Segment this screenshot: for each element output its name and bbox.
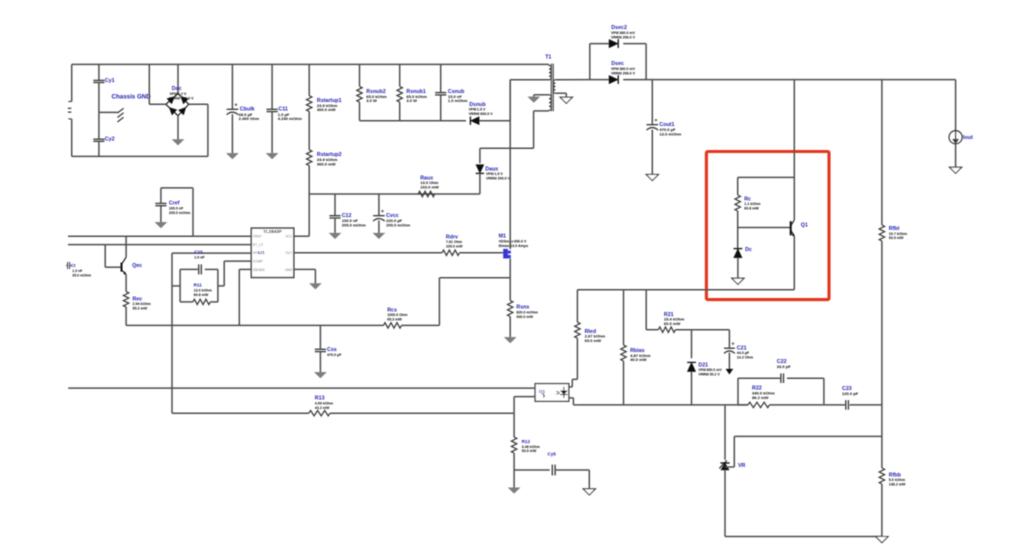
wire: R13 to opto junction [330, 412, 514, 414]
ground (Cref) [155, 222, 166, 227]
ground (C11) [267, 153, 278, 158]
svg-text:T1: T1 [545, 55, 551, 61]
label Rsnub1 values [406, 94, 427, 103]
wire: C23 to Rfbt column [850, 404, 882, 406]
capacitor C12 [329, 194, 340, 233]
label Rbias values [630, 353, 651, 362]
svg-text:IDmax 13.0 Amps: IDmax 13.0 Amps [499, 244, 528, 248]
diode D21 [687, 362, 696, 371]
resistor R11 [193, 299, 210, 304]
label Ct [71, 263, 76, 268]
wire: T1 aux bottom to Daux [480, 110, 549, 163]
ground (bridge) [172, 140, 183, 145]
svg-text:1.0 nF: 1.0 nF [194, 256, 205, 260]
transistor Qec [122, 257, 127, 275]
label Dc [745, 247, 752, 253]
wire: OUT pin to Rdrv [294, 252, 442, 254]
red highlight rectangle [706, 152, 829, 300]
label C21 values [737, 351, 753, 359]
label R13 values [315, 401, 333, 409]
resistor Rbias [621, 290, 626, 405]
label Daux [485, 166, 498, 172]
svg-text:VRRM 600.0 V: VRRM 600.0 V [170, 96, 195, 100]
label D21 values [698, 368, 722, 376]
svg-text:65.0 mW: 65.0 mW [585, 338, 602, 343]
label C23 [842, 386, 852, 392]
pin label RT_CT [253, 243, 264, 247]
wire: Iout to ground [955, 144, 957, 167]
svg-text:14.2 Ohm: 14.2 Ohm [737, 356, 753, 360]
svg-text:Dc: Dc [745, 247, 752, 253]
resistor Rled [575, 290, 580, 380]
wire: VREF bus [68, 235, 251, 237]
label D21 [698, 362, 708, 368]
wire: Rfbt to junctions [881, 241, 883, 468]
svg-text:3.0 W: 3.0 W [366, 98, 377, 103]
svg-text:GND: GND [285, 268, 293, 272]
pin label ISENSE [253, 268, 266, 272]
wire: R11 box left connector [172, 285, 180, 287]
svg-text:VRRM 206.0 V: VRRM 206.0 V [611, 71, 636, 75]
wire: T1 secondary bottom stub [555, 93, 566, 97]
label C22 value [777, 364, 791, 369]
label Rsns values [516, 310, 537, 318]
resistor Rc [735, 177, 740, 227]
transformer T1 primary winding [549, 66, 551, 80]
svg-text:Cy1: Cy1 [105, 78, 115, 84]
svg-text:205.0 mOhm: 205.0 mOhm [169, 211, 190, 215]
svg-text:103.0 mW: 103.0 mW [420, 185, 439, 190]
svg-text:Qec: Qec [132, 263, 142, 269]
wire: D21 to rail [691, 372, 693, 405]
capacitor Ct [66, 262, 71, 269]
resistor Rsns [508, 301, 513, 317]
label Rfbb [889, 472, 902, 478]
label C21 [737, 345, 747, 351]
label VR [738, 463, 746, 469]
wire: rail to C23 [824, 404, 845, 406]
wire: R12 to Cy5 node [513, 453, 515, 470]
svg-text:VRRM 50.2 V: VRRM 50.2 V [698, 373, 720, 377]
label Dsec [611, 61, 624, 67]
svg-text:Q1: Q1 [801, 222, 808, 228]
wire: R21 to C21 column [692, 329, 730, 331]
svg-text:33.0 pF: 33.0 pF [777, 364, 791, 369]
ground (Cbulk) [227, 153, 238, 158]
wire: snubber rail left [360, 120, 467, 122]
wire: T1 aux top stub [534, 95, 549, 97]
svg-text:RT_CT: RT_CT [253, 243, 264, 247]
svg-text:105.0 mW: 105.0 mW [446, 245, 463, 249]
transformer T1 secondary winding [553, 80, 555, 93]
wire: Rsns to ground [509, 317, 511, 338]
label C12 [342, 213, 352, 219]
capacitor Cout1 [647, 80, 659, 175]
pin label GND [285, 268, 293, 272]
label Rsns [516, 305, 529, 311]
svg-text:VR: VR [738, 463, 746, 469]
svg-text:VCC: VCC [285, 235, 293, 239]
wire: ISENSE pin run [239, 269, 251, 325]
label Cvcc [386, 213, 399, 219]
label Cbulk [240, 107, 255, 113]
label Rstartup2 [317, 152, 342, 158]
label Rstartup1 [317, 98, 342, 104]
label C10 [194, 249, 203, 254]
diode Dsec [609, 75, 618, 84]
resistor Rfbb [879, 468, 884, 484]
svg-text:Chassis GND: Chassis GND [112, 94, 152, 101]
ground arrow (secondary return) [560, 97, 572, 103]
svg-text:40.0 mW: 40.0 mW [630, 357, 647, 362]
svg-text:43.2 mW: 43.2 mW [315, 406, 330, 410]
label R11 [194, 283, 203, 288]
wire: junction up to opto emitter pin [514, 397, 535, 414]
capacitor Cbulk [227, 64, 239, 153]
wire: T1 secondary top to output rail [555, 79, 589, 81]
wire: RT_CT bus [68, 244, 251, 246]
wire: Rfbb to bottom rail [881, 484, 883, 537]
wire: D21 stub [691, 330, 693, 359]
wire: output rail [590, 79, 956, 81]
label R13 [315, 396, 325, 402]
capacitor Cvcc [373, 194, 385, 233]
wire: Q1 emitter down [793, 236, 795, 290]
transformer T1 core [551, 64, 553, 112]
capacitor Cref [155, 188, 193, 236]
transistor Q1 [791, 220, 795, 237]
wire: Qec base tap from RT_CT bus [105, 245, 121, 268]
label Raux values [420, 180, 439, 189]
wire: VR ref tap [725, 436, 734, 467]
ground arrow (Cy5) [583, 489, 595, 495]
wire: R21 branch drop [645, 290, 647, 330]
wire: T1 primary top from rail [548, 64, 550, 65]
label Cy5 [547, 452, 556, 457]
ground arrow (Iout) [949, 167, 961, 173]
label Cref values [169, 206, 190, 214]
svg-text:930.0 mW: 930.0 mW [516, 315, 533, 319]
svg-text:VREF: VREF [253, 235, 262, 239]
capacitor Cy1 [93, 64, 104, 112]
wire: Cy5 left [514, 469, 550, 471]
label Rfbt values [889, 232, 907, 240]
resistor R12 [511, 437, 516, 453]
svg-text:TL2843P: TL2843P [263, 229, 282, 234]
capacitor C23 [846, 400, 849, 410]
svg-text:4.240 mOhm: 4.240 mOhm [278, 116, 302, 121]
wire: top inner wire (Rc to collector) [738, 176, 795, 178]
capacitor Cy2 [93, 112, 104, 156]
optocoupler O1 LED [556, 387, 567, 398]
svg-text:COMP: COMP [253, 259, 264, 263]
label Csnub [448, 89, 465, 95]
label C23 value [842, 391, 859, 396]
label Rled values [585, 334, 606, 343]
svg-text:470.0 pF: 470.0 pF [327, 353, 342, 357]
capacitor C21 [724, 330, 735, 369]
label R22 [752, 386, 762, 392]
wire: feedback bottom rail [577, 404, 748, 406]
ground arrow (aux return) [528, 97, 539, 102]
ground arrow (bottom right) [876, 537, 888, 543]
label Cbulk values [239, 112, 260, 121]
voltage source Vac (left edge, collapsed symbol) [68, 64, 72, 156]
svg-text:360.0 mW: 360.0 mW [317, 161, 336, 166]
label Cout1 [659, 122, 674, 128]
svg-text:2.400 Ohm: 2.400 Ohm [239, 116, 260, 121]
wire: rail to Iout [955, 80, 957, 131]
resistor Raux [418, 191, 435, 196]
resistor Rsnub2 [357, 64, 362, 120]
capacitor C11 [267, 64, 278, 153]
resistor R13 [309, 411, 330, 416]
label Dsec values [611, 67, 636, 75]
label Dsec2 [611, 25, 627, 31]
ground (Rsns) [505, 337, 516, 342]
label Dac [172, 86, 182, 92]
label Rcs [387, 307, 397, 313]
label Rled [585, 329, 596, 335]
capacitor Csnub [435, 64, 446, 120]
diode Daux [476, 165, 484, 174]
wire: Q1 collector drop from rail [793, 80, 795, 220]
ground arrow (Cout1) [646, 174, 658, 180]
svg-text:U1: U1 [259, 250, 265, 256]
label Cref [169, 201, 180, 207]
wire: Qec collector from VREF bus [125, 236, 127, 257]
wire: bridge right to bottom rail [189, 104, 208, 156]
wire: rail drop to bridge top [177, 64, 179, 93]
svg-text:VRRM 600.0 V: VRRM 600.0 V [469, 112, 494, 116]
label Css [327, 347, 337, 353]
svg-text:60.8 mW: 60.8 mW [744, 207, 759, 211]
svg-text:120.0 pF: 120.0 pF [842, 391, 859, 396]
wire: Rdrv to gate [460, 252, 504, 254]
svg-text:Cy5: Cy5 [547, 452, 556, 457]
wire: T1 primary bottom to drain column [510, 80, 549, 121]
label Dac values [170, 92, 195, 100]
svg-text:205.0 mOhm: 205.0 mOhm [342, 222, 366, 227]
label Rbias [630, 348, 644, 354]
transformer T1 aux winding [549, 95, 551, 110]
label T1 [545, 55, 551, 61]
ground (Css) [315, 372, 326, 377]
wire: junction down to R12 [513, 413, 515, 437]
wire: snubber rail right [479, 120, 510, 122]
resistor Rstartup2 [307, 111, 312, 165]
wire: VFB bottom bus [172, 412, 309, 414]
svg-text:138.2 mW: 138.2 mW [889, 483, 906, 487]
label Rsnub1 [406, 89, 425, 95]
wire: Dc top stub [737, 228, 739, 249]
svg-text:OUT: OUT [285, 251, 292, 255]
label Raux [420, 175, 433, 181]
wire: Dc to ground arrow [737, 258, 739, 278]
svg-text:Css: Css [327, 347, 337, 353]
wire: M1 source to Rsns [509, 259, 511, 301]
label Rc values [744, 202, 760, 210]
node: C21 termination arrow [726, 369, 733, 374]
chassis ground (earth symbol) [117, 108, 123, 122]
svg-text:VRRM 206.0 V: VRRM 206.0 V [611, 35, 636, 39]
wire: Rled to opto anode jog [569, 379, 578, 387]
label Csnub values [448, 94, 468, 103]
label Rfbt [889, 226, 900, 232]
svg-text:R12: R12 [522, 439, 531, 444]
label C11 values [278, 112, 302, 121]
label R21 values [664, 317, 685, 326]
label Iout [963, 135, 973, 141]
diode Dsec2 [609, 39, 618, 48]
wire: bridge bottom to ground [177, 116, 179, 140]
wire: AC input top rail [72, 63, 549, 65]
wire: opto collector bus [68, 387, 535, 389]
label Rfbb values [889, 478, 906, 486]
svg-text:360.0 mW: 360.0 mW [317, 107, 336, 112]
label M1 [499, 233, 506, 239]
pin label VFB [253, 251, 260, 255]
wire: VR ref rail [734, 435, 882, 437]
wire: base wire [738, 227, 791, 229]
label R11 values [194, 288, 212, 296]
label Daux values [486, 172, 511, 180]
pin label OUT [285, 251, 292, 255]
svg-text:93.9 mW: 93.9 mW [522, 449, 537, 453]
wire: M1 drain column [509, 80, 511, 249]
capacitor Cy5 [552, 465, 555, 476]
MOSFET M1 [503, 249, 511, 259]
label Rsnub2 values [366, 94, 387, 103]
label C10 value [194, 256, 205, 260]
label Rec [133, 296, 143, 302]
svg-text:60.0 mW: 60.0 mW [664, 321, 681, 326]
label Chassis GND [112, 94, 152, 101]
label R21 [664, 312, 674, 318]
label R12 values [522, 445, 540, 453]
capacitor C10 [199, 264, 202, 274]
diode Dsnub [470, 117, 479, 125]
label TL2843P [263, 229, 282, 234]
label M1 values [499, 239, 528, 247]
svg-text:R11: R11 [194, 283, 203, 288]
wire: VR to bottom rail [724, 470, 726, 537]
wire: Daux to VCC rail [479, 173, 481, 194]
ground arrow (Dc) [732, 278, 744, 284]
label Rec values [133, 302, 151, 310]
resistor Rsnub1 [397, 64, 402, 120]
label Qec [132, 263, 142, 269]
bridge rectifier Dac [166, 94, 189, 116]
current source Iout [949, 131, 962, 144]
svg-text:VRRM 200.0 V: VRRM 200.0 V [486, 177, 511, 181]
resistor Rstartup1 [307, 64, 312, 111]
label U1 [259, 250, 265, 256]
wire: secondary bottom rail [725, 536, 882, 538]
diode Dc [734, 249, 743, 258]
label Rstartup2 values [317, 157, 338, 166]
IC U1 TL2843P box [251, 228, 293, 277]
wire: chassis tap [99, 111, 118, 113]
resistor Rec [123, 275, 128, 326]
wire: R22-C22 box [738, 378, 824, 405]
resistor Rfbt [879, 225, 884, 241]
wire: VFB vertical [171, 253, 173, 413]
wire: opto cathode to feedback rail [569, 398, 578, 405]
label Rsnub2 [366, 89, 385, 95]
resistor R21 [646, 327, 691, 332]
svg-text:1.0 mOhm: 1.0 mOhm [448, 98, 468, 103]
svg-text:205.0 mOhm: 205.0 mOhm [386, 222, 410, 227]
wire: VCC rail [309, 193, 480, 195]
wire: Cy5 right to ground [555, 470, 589, 489]
wire: rail drop to bridge left [149, 64, 166, 104]
wire: current sense bus [126, 324, 383, 326]
label Q1 [801, 222, 808, 228]
svg-text:Cy2: Cy2 [105, 137, 115, 143]
wire: GND pin to ground [294, 269, 316, 283]
label Cout1 values [659, 127, 681, 136]
wire: Dsec2 branch [590, 44, 646, 80]
wire: VFB pin run [172, 252, 251, 254]
capacitor Css [315, 325, 326, 372]
label Dsnub values [469, 108, 494, 116]
resistor Rdrv [442, 250, 459, 255]
label Rdrv values [446, 240, 463, 248]
label Cy1 [105, 78, 115, 84]
ground (R12 node) [509, 470, 520, 493]
wire: R11 box right to COMP [218, 261, 251, 286]
label Rc [744, 196, 751, 202]
svg-text:Ct: Ct [71, 263, 76, 268]
resistor R22 [738, 402, 824, 407]
label O1 [539, 389, 546, 394]
wire: sense bus to M1 source column [402, 278, 511, 326]
label Rstartup1 values [317, 103, 338, 112]
svg-text:C10: C10 [194, 249, 203, 254]
svg-text:60.8 mW: 60.8 mW [194, 293, 209, 297]
label Css value [327, 353, 342, 357]
ground (Cvcc) [373, 233, 384, 238]
label Cy2 [105, 137, 115, 143]
label C22 [777, 359, 787, 365]
optocoupler O1 box [535, 384, 569, 402]
svg-text:13.0 mOhm: 13.0 mOhm [659, 132, 681, 137]
capacitor C22 [781, 373, 784, 383]
label C11 [278, 107, 287, 113]
svg-text:55.2 mW: 55.2 mW [133, 307, 148, 311]
label R12 [522, 439, 531, 444]
label Cvcc values [386, 218, 410, 227]
ground (IC GND) [310, 284, 321, 289]
network R11/C10 box [180, 269, 218, 302]
pin label VCC [285, 235, 293, 239]
label Rdrv [446, 234, 458, 240]
svg-text:93.9 mW: 93.9 mW [889, 236, 904, 240]
wire: Rfbt drop from rail [881, 80, 883, 225]
svg-text:Iout: Iout [963, 135, 973, 141]
resistor Rcs [384, 323, 402, 328]
svg-text:ISENSE: ISENSE [253, 268, 266, 272]
label Dsec2 values [611, 31, 636, 39]
svg-text:65.3 mW: 65.3 mW [387, 318, 402, 322]
pin label VREF [253, 235, 262, 239]
label Rcs values [387, 313, 407, 321]
label Dsnub [469, 102, 486, 108]
svg-text:35.0 mOhm: 35.0 mOhm [72, 273, 91, 277]
ground (C12) [329, 233, 340, 238]
wire: VR top [724, 405, 726, 460]
